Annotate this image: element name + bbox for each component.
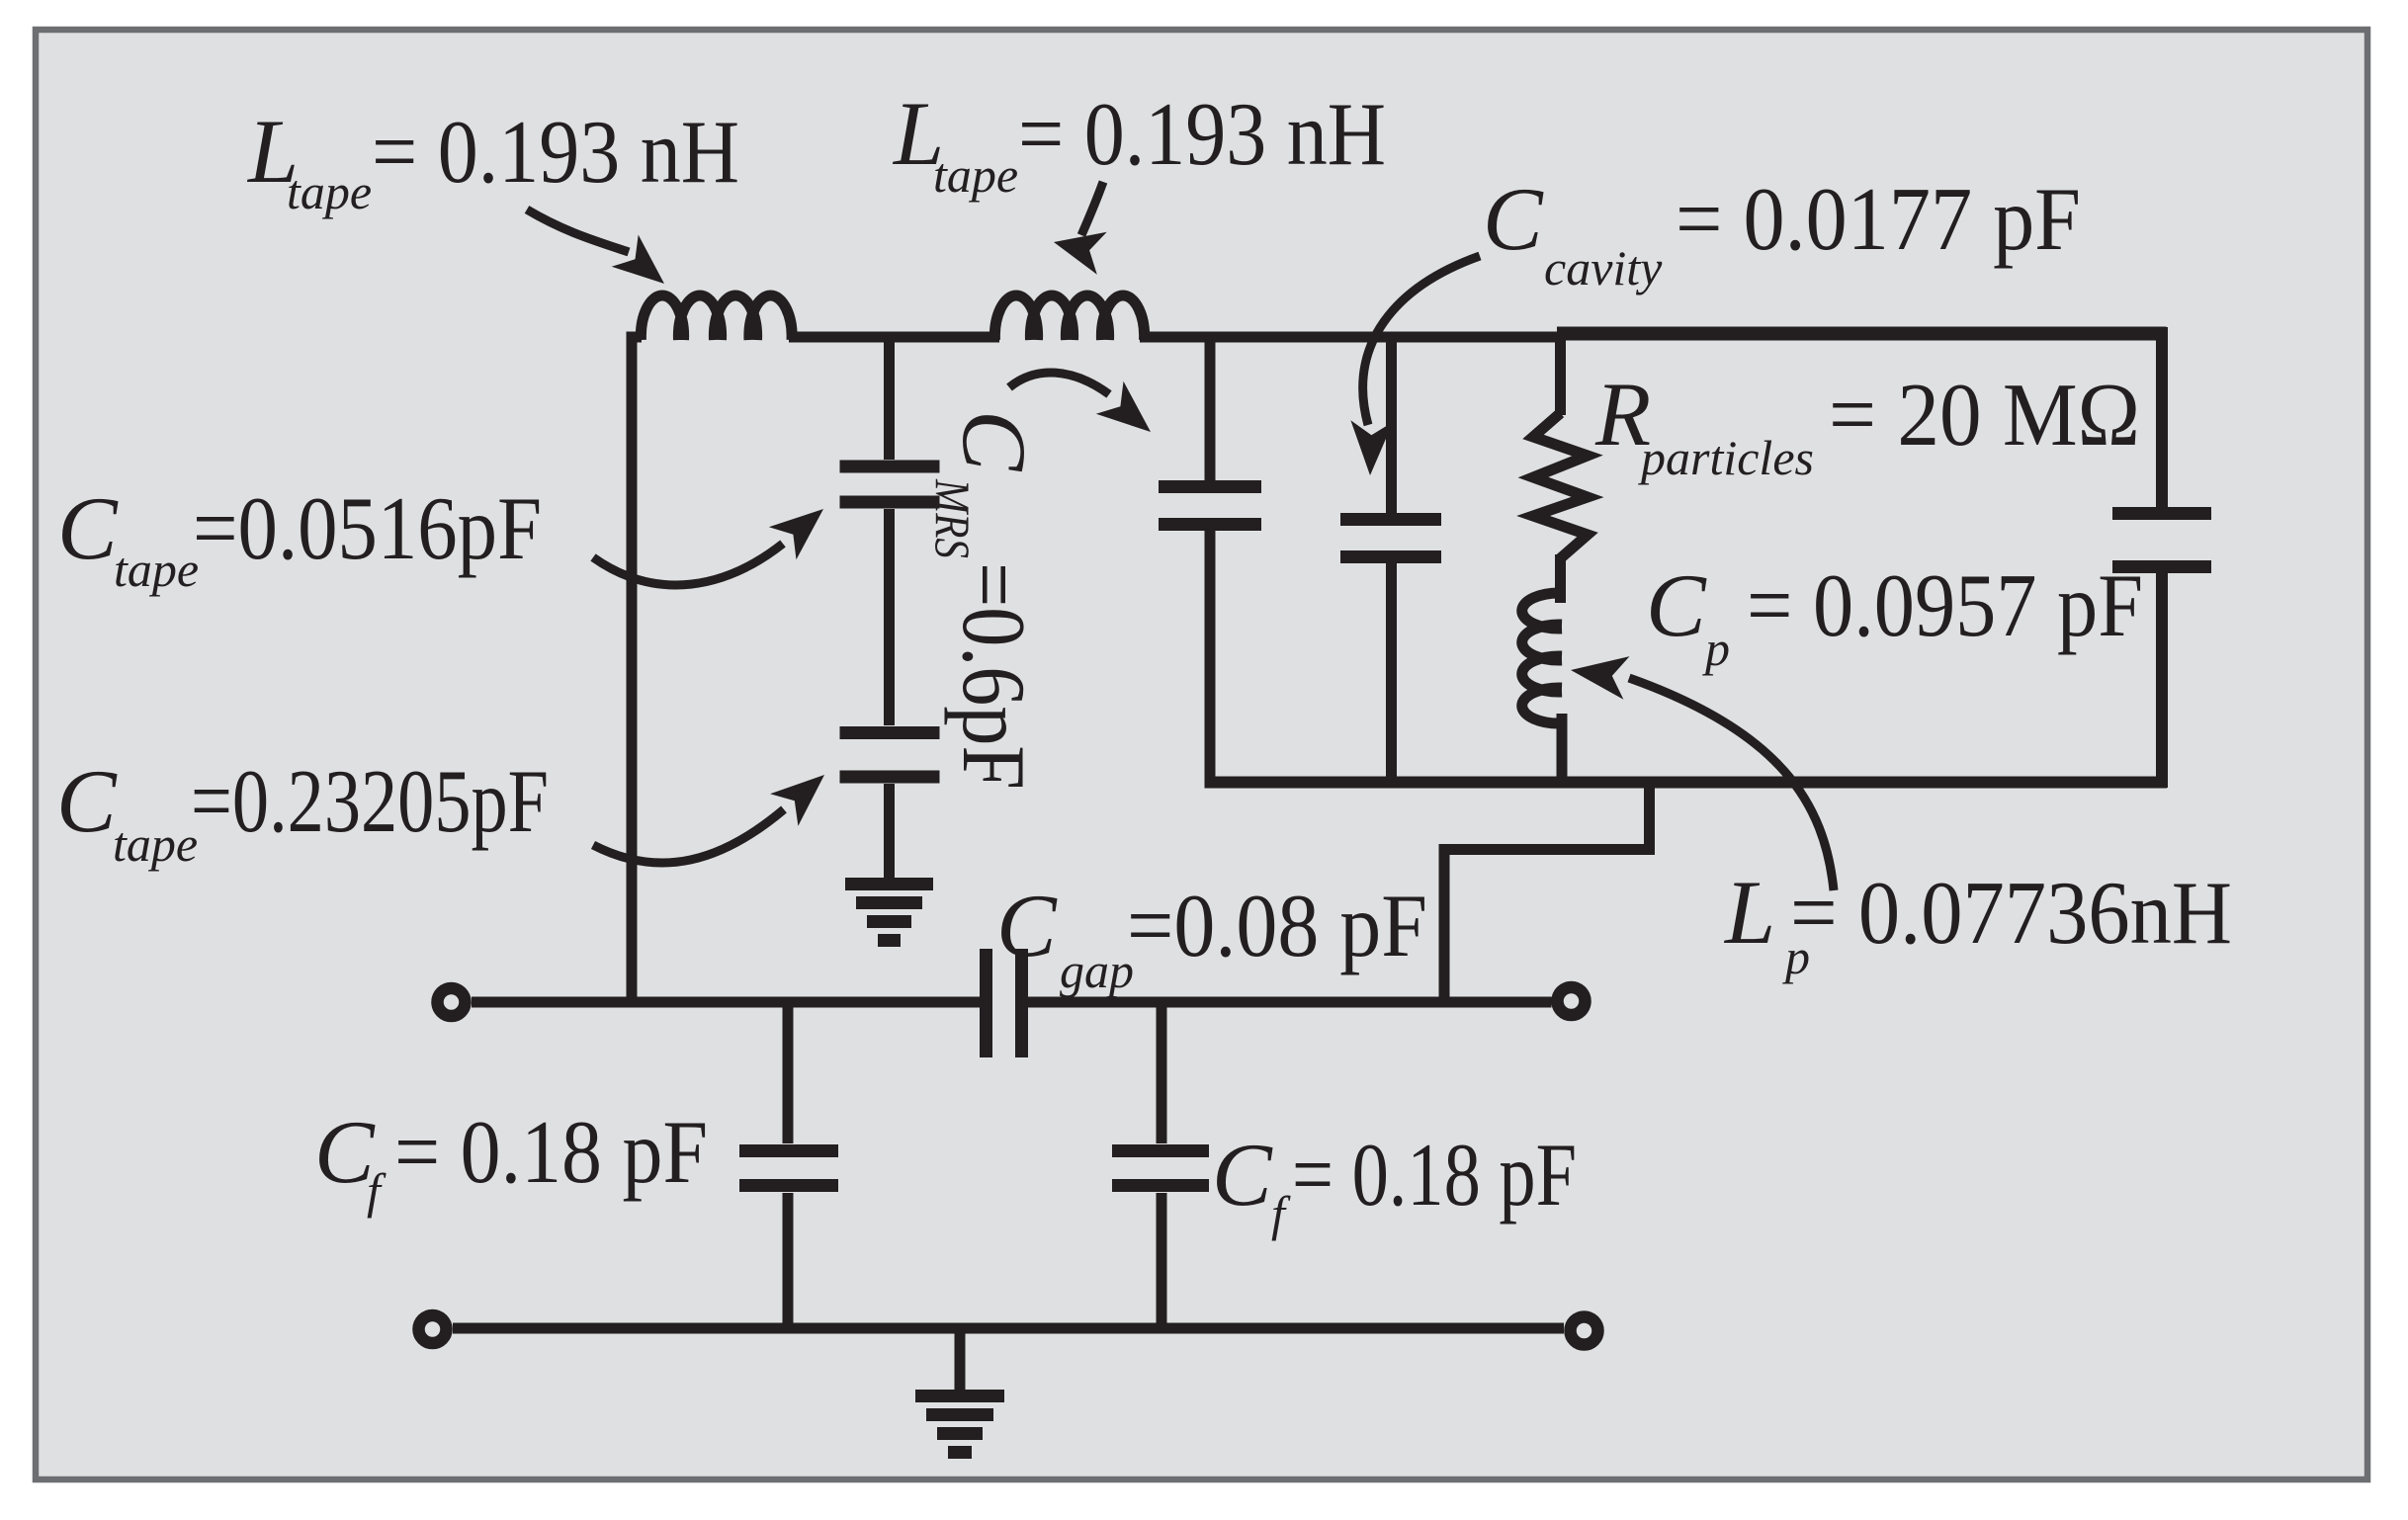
svg-text:= 0.07736nH: = 0.07736nH: [1790, 863, 2232, 963]
wire: C_cavity bottom lead: [1386, 563, 1397, 783]
wire: loop right vertical top: [2156, 327, 2168, 507]
svg-text:= 0.18 pF: = 0.18 pF: [1292, 1125, 1577, 1224]
terminal port bottom-left: [419, 1315, 447, 1343]
wire: bottom ground stub: [955, 1328, 966, 1390]
svg-text:C: C: [1646, 555, 1707, 655]
svg-text:= 0.18 pF: = 0.18 pF: [394, 1102, 708, 1202]
wire: loop right vertical bottom: [2156, 573, 2168, 788]
svg-text:C: C: [56, 751, 118, 851]
svg-text:= 0.193 nH: = 0.193 nH: [1018, 84, 1386, 184]
svg-text:=0.23205pF: =0.23205pF: [191, 751, 549, 851]
wire: R to L_p connecting lead: [1555, 554, 1566, 603]
svg-text:C: C: [1483, 169, 1544, 269]
wire: C_f1 bottom lead: [783, 1193, 794, 1333]
svg-text:= 0.193 nH: = 0.193 nH: [372, 102, 739, 202]
arrow to C_tape 0.23205pF: [593, 775, 824, 863]
wire: C_MRS bottom lead: [1205, 531, 1216, 783]
svg-text:MRS: MRS: [925, 478, 981, 558]
svg-text:C: C: [944, 410, 1045, 472]
svg-text:p: p: [1702, 621, 1730, 676]
ground symbol (bottom rail): [915, 1396, 1004, 1453]
wire: step horizontal: [1439, 844, 1656, 855]
wire: L_p bottom lead: [1557, 714, 1568, 783]
svg-text:=0.08 pF: =0.08 pF: [1127, 876, 1427, 975]
arrow to L_tape 1: [527, 210, 664, 284]
svg-text:L: L: [1723, 862, 1775, 963]
wire: C_f2 bottom lead: [1157, 1193, 1167, 1333]
wire: C_MRS top lead: [1205, 337, 1216, 480]
svg-text:C: C: [1212, 1125, 1273, 1224]
arrow to C_tape 0.0516pF: [593, 509, 823, 585]
wire: C_tape chain middle lead: [884, 509, 895, 725]
wire: C_f1 top lead: [783, 1002, 794, 1143]
ground symbol (C_MRS chain): [845, 885, 933, 941]
capacitor C_MRS plates: [1159, 480, 1261, 493]
wire: R branch top lead: [1555, 337, 1566, 415]
wire: port wire right span: [1028, 997, 1552, 1008]
capacitor C_gap plates (vertical): [980, 949, 992, 1057]
resistor R_particles (zigzag): [1533, 413, 1588, 558]
svg-text:=0.6pF: =0.6pF: [944, 562, 1044, 790]
capacitor C_tape 0.23205pF plates: [840, 726, 940, 739]
svg-text:= 0.0957 pF: = 0.0957 pF: [1747, 555, 2143, 655]
inductor L_tape 2 (coil): [994, 296, 1144, 340]
wire: step vertical to port wire: [1439, 844, 1450, 1007]
capacitor C_f2 plates: [1112, 1144, 1209, 1157]
wire: loop top span: [1557, 327, 2167, 341]
svg-text:C: C: [57, 478, 119, 578]
wire: left branch vertical: [627, 335, 638, 1007]
wire: step vertical from loop: [1644, 777, 1655, 855]
svg-text:tape: tape: [933, 147, 1018, 203]
svg-text:particles: particles: [1638, 430, 1814, 485]
label C_MRS value (rotated): [925, 410, 1045, 790]
wire: top rail mid span: [789, 332, 999, 343]
arrow to L_p: [1571, 656, 1834, 890]
svg-text:tape: tape: [114, 542, 199, 597]
svg-text:gap: gap: [1060, 943, 1134, 998]
svg-text:cavity: cavity: [1544, 240, 1663, 296]
wire: loop bottom rail: [1205, 777, 2168, 789]
wire: C_cavity top lead: [1386, 337, 1397, 513]
wire: top rail left span: [632, 337, 642, 341]
capacitor C_tape 0.0516pF plates: [840, 461, 940, 473]
terminal port top-right: [1558, 987, 1586, 1015]
wire: port wire left span: [472, 997, 980, 1008]
wire: top rail right span: [1140, 332, 1563, 343]
svg-text:= 0.0177 pF: = 0.0177 pF: [1676, 169, 2081, 269]
capacitor C_cavity plates: [1340, 513, 1441, 526]
arrow to C_MRS: [1009, 373, 1151, 432]
arrow to L_tape 2: [1054, 182, 1107, 275]
svg-text:= 20 MΩ: = 20 MΩ: [1829, 365, 2140, 464]
svg-text:tape: tape: [113, 816, 198, 872]
wire: C_tape chain lower lead: [884, 784, 895, 880]
wire: C_tape chain upper lead: [884, 337, 895, 460]
capacitor C_p plates: [2112, 507, 2211, 520]
capacitor C_f1 plates: [739, 1144, 838, 1157]
svg-text:tape: tape: [287, 164, 372, 219]
inductor L_p (vertical coil): [1522, 593, 1562, 723]
terminal port top-left: [438, 988, 466, 1016]
terminal port bottom-right: [1571, 1317, 1598, 1345]
arrow to C_cavity: [1350, 256, 1480, 475]
inductor L_tape 1 (coil): [641, 296, 792, 340]
wire: C_f2 top lead: [1157, 1002, 1167, 1143]
svg-text:C: C: [996, 876, 1058, 975]
wire: bottom ground rail: [453, 1323, 1564, 1334]
svg-text:=0.0516pF: =0.0516pF: [193, 478, 542, 578]
